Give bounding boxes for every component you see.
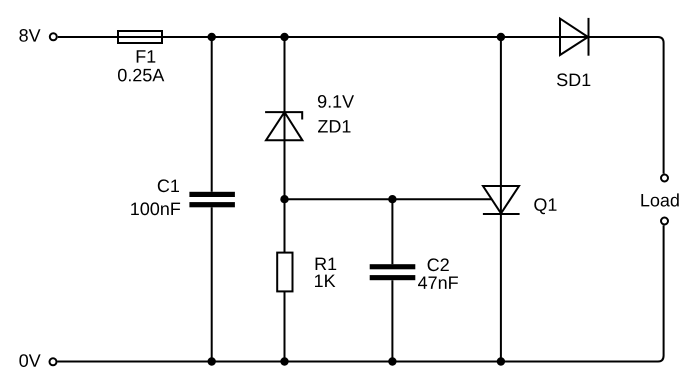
label Load — [641, 193, 678, 206]
wire top rail: through fuse to right corner, down to Load top terminal — [118, 37, 664, 174]
capacitor C1 — [189, 192, 235, 208]
thyristor Q1 — [483, 186, 520, 214]
wire top rail: 8V terminal to fuse — [58, 36, 118, 38]
wire C1 branch lower — [211, 207, 213, 361]
label C1 — [158, 179, 179, 192]
junction: bottom rail / R1 — [280, 357, 288, 365]
junction: bottom rail / C1 — [208, 357, 216, 365]
junction: bottom rail / C2 — [388, 357, 396, 365]
wire ZD1 branch (top rail through zener to node A) — [284, 37, 286, 253]
junction: middle wire / C2 — [388, 195, 396, 203]
net label 8V — [19, 29, 40, 42]
net label 0V — [19, 354, 40, 367]
resistor R1 — [277, 253, 292, 292]
diode SD1 — [560, 18, 589, 56]
terminal Load bottom — [661, 218, 668, 225]
junction: top rail / Q1 — [497, 33, 505, 41]
value 1K — [315, 275, 335, 287]
capacitor C2 — [370, 264, 416, 280]
junction: bottom rail / Q1 — [497, 357, 505, 365]
label SD1 — [557, 73, 590, 86]
value 47nF — [418, 277, 458, 289]
label ZD1 — [318, 120, 351, 132]
label F1 — [137, 50, 156, 62]
terminal 8V input — [50, 33, 57, 40]
wire C2 branch upper — [391, 199, 393, 264]
wire C1 branch upper — [211, 37, 213, 192]
junction node A: ZD1 / R1 / middle wire — [280, 195, 288, 203]
terminal Load top — [661, 175, 668, 182]
junction: top rail / C1 — [208, 33, 216, 41]
wire C2 branch lower — [391, 280, 393, 361]
junction: top rail / ZD1 — [280, 33, 288, 41]
value 9.1V — [318, 95, 354, 108]
wire Q1 branch (top rail through Q1 to bottom rail) — [500, 37, 502, 362]
label C2 — [428, 258, 449, 271]
wire bottom rail: 0V terminal to bottom-right corner, up to Load bottom terminal — [57, 225, 663, 361]
label Q1 — [534, 198, 556, 214]
wire R1 lower — [284, 291, 286, 361]
value 0.25A — [118, 69, 164, 82]
label R1 — [316, 258, 337, 270]
value 100nF — [131, 202, 180, 215]
terminal 0V input — [50, 358, 57, 365]
wire middle: node A to Q1 gate — [285, 198, 492, 200]
fuse F1 — [118, 31, 162, 43]
zener diode ZD1 — [265, 112, 302, 140]
